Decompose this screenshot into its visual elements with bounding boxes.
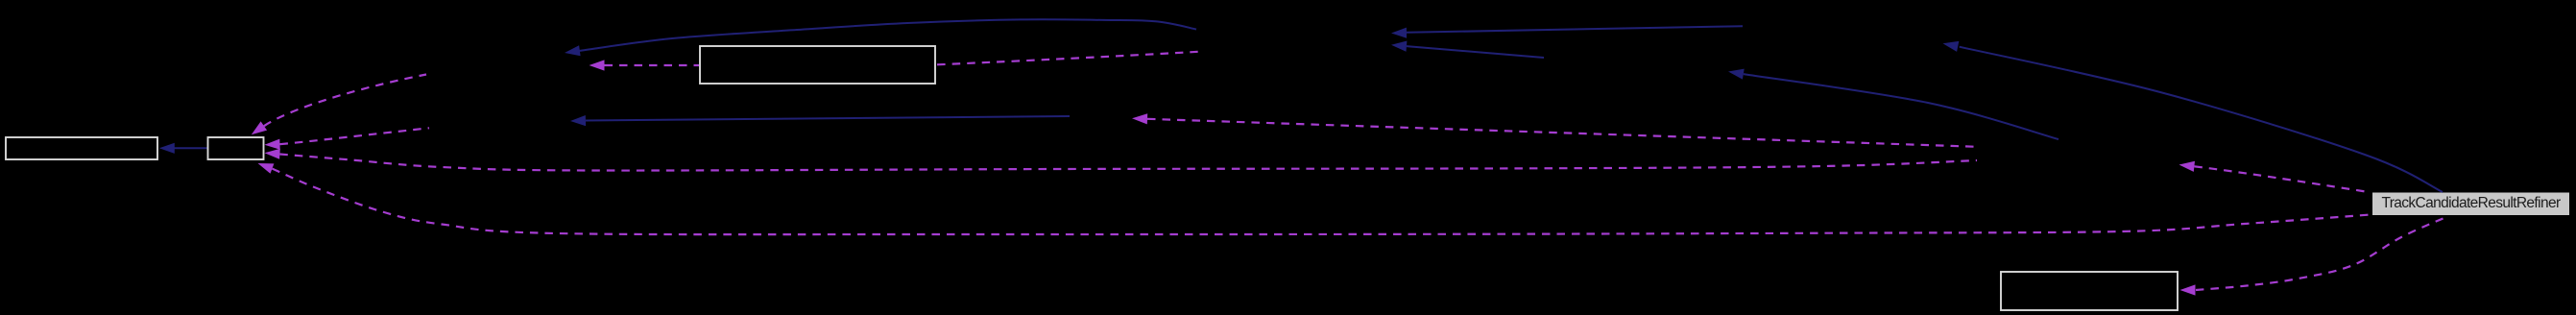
dashed edge D10: B5 corner to left node <box>2179 161 2371 193</box>
svg-text:TrackCandidateResultRefiner: TrackCandidateResultRefiner <box>2381 195 2560 211</box>
blue edge S5 <box>570 115 1070 126</box>
dashed edge D6: into B2 top-right corner <box>252 75 426 135</box>
blue edge S4 <box>1391 41 1544 59</box>
node box B2 (small hub) <box>208 137 264 159</box>
node B5 TrackCandidateResultRefiner (current node, grey) <box>2372 193 2569 216</box>
blue edge S2: long top arc <box>565 19 1196 56</box>
dashed edge D3 <box>1132 113 1977 147</box>
dashed edge D1: into node left of B3 <box>590 60 700 70</box>
dashed edge D7: into B2 right edge upper <box>265 128 430 150</box>
blue edge S6 <box>1728 69 2058 139</box>
blue edge S1: B2 to B1 <box>159 143 207 154</box>
dashed edge D4: long middle to B2 right edge <box>265 149 1978 171</box>
node box B1 (far left, wide) <box>6 137 157 159</box>
node box B3 (top middle) <box>700 46 935 84</box>
blue edge S3 <box>1391 26 1743 38</box>
node box B4 (bottom right) <box>2001 272 2178 310</box>
dashed edge D5: long bottom sweep B5 to B2 <box>258 163 2371 234</box>
dashed edge D2: B3 right tail <box>937 52 1198 65</box>
blue edge S7: into B5 top <box>1943 41 2444 192</box>
dashed edge D9: B5 to B4 <box>2180 217 2448 296</box>
